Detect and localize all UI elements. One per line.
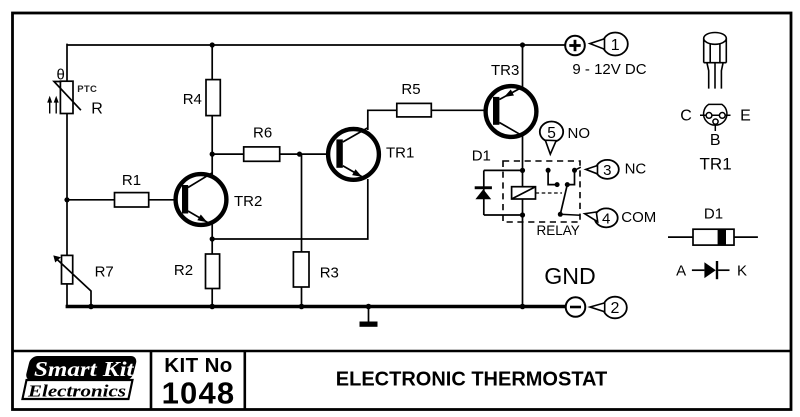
terminal minus [566, 297, 586, 317]
svg-text:1048: 1048 [162, 376, 236, 411]
relay contact NC stub [567, 170, 574, 184]
svg-text:E: E [740, 108, 751, 125]
svg-text:D1: D1 [472, 148, 491, 165]
svg-text:TR1: TR1 [386, 144, 414, 161]
svg-text:NO: NO [568, 125, 591, 142]
svg-text:D1: D1 [704, 206, 723, 223]
terminal 1 circle [603, 33, 628, 56]
svg-text:4: 4 [602, 211, 610, 228]
relay linkage dashed [536, 192, 563, 194]
svg-text:PTC: PTC [77, 84, 97, 95]
wire TR1 collector to R5 [368, 110, 494, 130]
R7 wiper arrow [57, 259, 92, 307]
resistor R2 [206, 254, 220, 289]
terminal plus [565, 36, 585, 56]
svg-text:ELECTRONIC THERMOSTAT: ELECTRONIC THERMOSTAT [336, 369, 607, 391]
svg-text:R1: R1 [122, 172, 141, 189]
svg-text:1: 1 [611, 37, 620, 54]
svg-text:TR3: TR3 [491, 62, 519, 79]
relay dashed box [503, 161, 580, 222]
wire top rail [67, 44, 566, 46]
svg-text:COM: COM [621, 209, 656, 226]
svg-text:θ: θ [57, 67, 65, 84]
wire R3 branch [301, 154, 303, 306]
right panel: pinout view [700, 104, 731, 131]
svg-text:KIT No: KIT No [164, 354, 232, 377]
svg-text:R: R [91, 101, 103, 118]
wire D1 vertical [483, 170, 485, 215]
resistor R4 [206, 80, 220, 116]
svg-text:R3: R3 [320, 265, 339, 282]
thermistor diagonal [54, 82, 81, 111]
svg-text:K: K [737, 263, 747, 280]
wire R4 branch [211, 45, 213, 175]
relay contact NO stub [548, 170, 557, 184]
transistor TR1 [328, 128, 379, 180]
relay lever [560, 185, 567, 215]
svg-text:9 - 12V DC: 9 - 12V DC [572, 61, 646, 78]
svg-text:NC: NC [625, 161, 647, 178]
divider vertical 2 [244, 351, 247, 410]
wire D1 parallel top [484, 169, 523, 171]
terminal 5 circle [540, 122, 563, 143]
relay NC to box edge [575, 167, 581, 170]
svg-text:Smart Kit: Smart Kit [34, 357, 135, 381]
svg-text:B: B [710, 132, 721, 149]
relay coil [512, 187, 536, 199]
svg-text:R5: R5 [401, 81, 420, 98]
svg-text:R4: R4 [183, 91, 202, 108]
bottom ground rail [66, 305, 566, 308]
wire D1 parallel bottom [484, 214, 523, 216]
ground symbol [368, 307, 370, 322]
svg-text:2: 2 [611, 300, 620, 317]
transistor TR3 (PNP) [486, 86, 537, 137]
trimmer R7 [62, 255, 73, 284]
thermistor R box [60, 81, 73, 113]
resistor R3 [293, 252, 309, 287]
svg-text:GND: GND [544, 263, 596, 289]
divider vertical 1 [150, 351, 153, 410]
right panel: TO-92 package [704, 33, 727, 89]
terminal 3 circle [596, 160, 619, 179]
bottom bar: logo Smart Kit [22, 356, 137, 400]
wire TR3 emitter top [522, 45, 524, 88]
wire left rail [66, 44, 68, 307]
svg-text:5: 5 [547, 125, 556, 142]
svg-text:R7: R7 [95, 263, 114, 280]
svg-text:A: A [676, 262, 686, 279]
relay COM link [560, 213, 580, 216]
wire R1 branch [67, 199, 183, 201]
svg-text:RELAY: RELAY [537, 223, 580, 238]
transistor TR2 [176, 173, 227, 225]
svg-text:C: C [680, 107, 692, 124]
resistor R5 [397, 103, 432, 117]
terminal 4 circle [595, 208, 618, 227]
svg-text:Electronics: Electronics [27, 381, 126, 400]
wire TR3 collector to relay to ground [522, 135, 524, 307]
divider line bottom bar [12, 350, 792, 353]
svg-text:TR2: TR2 [234, 193, 262, 210]
thermistor arrows [47, 96, 59, 114]
wire R2 branch [211, 239, 213, 307]
diode D1 [475, 186, 492, 189]
terminal 2 circle [603, 297, 627, 319]
wire R6 row [212, 153, 337, 155]
svg-text:3: 3 [603, 162, 611, 179]
wire TR2 emitter to R2 and link [212, 179, 368, 239]
resistor R6 [244, 147, 280, 161]
svg-text:TR1: TR1 [700, 154, 732, 173]
svg-text:R6: R6 [253, 124, 272, 141]
resistor R1 [115, 193, 149, 207]
svg-text:R2: R2 [174, 262, 193, 279]
